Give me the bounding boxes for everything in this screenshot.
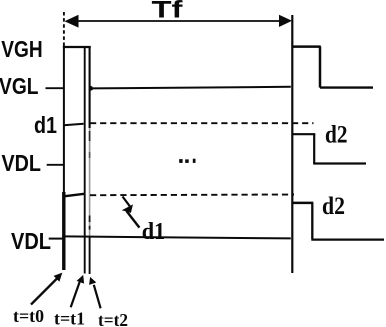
wire d1 callout arrowhead [122, 204, 133, 213]
node t2 marker dash mid2 [89, 226, 91, 230]
wire t1 pointer arrowhead [77, 275, 85, 284]
wire row3 step upper [293, 202, 314, 205]
wire gate pulse 2 low level [320, 86, 373, 88]
wire VGL level line [90, 87, 291, 89]
wire VDL label tick row3 [49, 238, 65, 240]
wire d1 callout squiggle upper flick [123, 197, 131, 207]
wire gate pulse 2 falling edge [319, 47, 322, 88]
svg-text:VDL: VDL [2, 150, 42, 176]
wire VDL label tick row2 [47, 164, 65, 166]
svg-text:d1: d1 [142, 219, 166, 245]
svg-text:VGH: VGH [1, 36, 42, 62]
node t2 marker dash upper [89, 131, 91, 141]
wire d1 dashed hold line row3 [90, 194, 294, 197]
wire t0 pointer arrowhead [54, 273, 63, 282]
wire gate pulse top (VGH level) [63, 46, 91, 48]
node t1 marker line [84, 47, 86, 274]
node t2 marker line faint mid [89, 128, 91, 237]
svg-text:t=t0: t=t0 [13, 306, 44, 326]
node t2 marker line [89, 46, 91, 128]
wire Tf right arrowhead [279, 15, 292, 27]
wire row3 d2 level [311, 238, 384, 240]
svg-text:VDL: VDL [11, 228, 51, 254]
wire d1 callout shaft [127, 211, 140, 228]
wire VGL label tick [46, 87, 65, 89]
wire VDL level line row3 [65, 236, 291, 238]
wire d1 level segment row2 [64, 124, 84, 126]
svg-text:t=t1: t=t1 [54, 309, 85, 327]
wire Tf arrow line [75, 20, 281, 22]
wire d1 level segment row3 [64, 194, 84, 197]
svg-text:d2: d2 [322, 191, 345, 220]
wire t1 pointer arrow shaft [71, 282, 80, 308]
wire row2 d2 level [313, 162, 366, 164]
node junction blob at pulse foot [89, 85, 93, 92]
svg-text:VGL: VGL [0, 73, 39, 99]
node t0 marker line dotted top [63, 12, 65, 46]
node t2 marker line lower [89, 237, 91, 274]
wire frame-end vertical line [291, 15, 293, 273]
wire t2 pointer arrow shaft [94, 285, 101, 309]
svg-text:d1: d1 [34, 112, 57, 138]
wire row2 step upper [293, 133, 316, 135]
wire row2 step fall [313, 134, 315, 163]
wire Tf left arrowhead [65, 15, 79, 28]
svg-text:t=t2: t=t2 [98, 310, 128, 327]
wire d1 dashed hold line row2 [90, 122, 314, 124]
node t0 marker line bold lower [62, 192, 65, 270]
wire t0 pointer arrow shaft [31, 278, 58, 305]
wire row3 step fall [311, 203, 313, 239]
node ellipsis dots [179, 159, 182, 163]
wire t2 pointer arrowhead [89, 277, 96, 285]
node t0 marker line [63, 46, 65, 192]
wire gate pulse 2 top [292, 45, 321, 48]
svg-text:Tf: Tf [152, 0, 184, 23]
node t2 marker dash mid [89, 216, 91, 223]
svg-text:d2: d2 [325, 120, 348, 149]
